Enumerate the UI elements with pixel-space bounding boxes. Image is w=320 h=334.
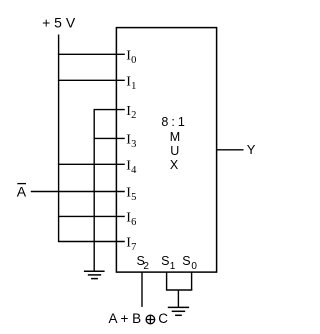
svg-text:2: 2 (143, 261, 149, 272)
svg-text:8: 8 (161, 115, 168, 129)
+5V rail wire (58, 35, 60, 242)
svg-text:Y: Y (247, 142, 256, 157)
svg-text:X: X (170, 158, 179, 172)
svg-text:4: 4 (131, 165, 137, 176)
output wire Y (217, 149, 244, 151)
svg-text:A + B: A + B (109, 311, 142, 326)
svg-text:M: M (170, 130, 180, 144)
wire joining S1 and S0 (166, 289, 192, 291)
svg-text:3: 3 (131, 139, 136, 150)
wire S0 stub (191, 272, 193, 290)
ground rail (left) (93, 110, 95, 271)
svg-text::: : (171, 115, 174, 129)
wire to I3 (94, 137, 125, 139)
wire from A-bar to I5 (31, 191, 125, 193)
svg-text:6: 6 (131, 217, 136, 228)
xor symbol (146, 315, 155, 324)
svg-text:+ 5 V: + 5 V (42, 14, 76, 30)
ground symbol (left) (84, 270, 105, 272)
svg-text:S: S (182, 254, 190, 268)
svg-text:U: U (170, 144, 179, 158)
svg-text:7: 7 (131, 242, 136, 253)
wire to I4 (58, 163, 125, 165)
ground symbol (right) (168, 306, 189, 308)
wire from S2 down (141, 272, 143, 307)
svg-text:0: 0 (191, 261, 197, 272)
MUX box U1 (8:1 multiplexer body) (116, 28, 216, 273)
A overbar (17, 183, 26, 185)
wire to I7 (58, 241, 125, 243)
wire to I0 (58, 53, 125, 55)
svg-text:5: 5 (131, 192, 136, 203)
svg-text:1: 1 (178, 115, 185, 129)
svg-text:A: A (17, 184, 27, 200)
wire to ground (right) (177, 290, 179, 307)
svg-text:S: S (161, 254, 169, 268)
svg-text:2: 2 (131, 110, 136, 121)
wire S1 stub (166, 272, 168, 290)
svg-text:1: 1 (131, 81, 136, 92)
wire to I2 (94, 109, 125, 111)
svg-text:C: C (158, 311, 168, 326)
wire to I6 (58, 215, 125, 217)
svg-text:0: 0 (131, 55, 136, 66)
svg-text:1: 1 (170, 261, 176, 272)
wire to I1 (58, 79, 125, 81)
